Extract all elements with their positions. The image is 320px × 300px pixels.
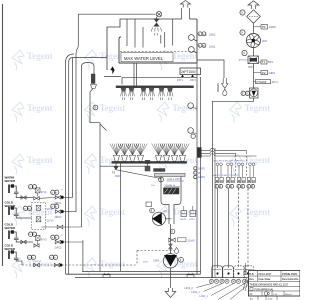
svg-text:Tegent: Tegent xyxy=(100,259,126,269)
indicator circled cold2 xyxy=(28,232,32,236)
sensor P3 xyxy=(254,26,262,28)
svg-text:2xPT1000: 2xPT1000 xyxy=(181,70,196,74)
tank internal divider 4 xyxy=(160,35,162,44)
svg-text:9YV3: 9YV3 xyxy=(41,239,48,242)
indicator circled p1 xyxy=(241,91,245,95)
terminal circle pairs xyxy=(216,163,219,166)
sensor 2xPT1000 xyxy=(180,68,201,75)
valve dashed line 1 xyxy=(34,263,40,267)
svg-text:PT1000: PT1000 xyxy=(257,80,267,84)
svg-text:Sheet 1: Sheet 1 xyxy=(285,293,293,296)
svg-text:TS: TS xyxy=(112,172,115,175)
wire tank overflow to drain xyxy=(197,60,224,78)
svg-text:29FC2: 29FC2 xyxy=(55,217,63,219)
svg-text:2x9L2: 2x9L2 xyxy=(209,34,216,37)
dashed group box solenoids xyxy=(32,203,46,230)
vent arrow up xyxy=(181,1,191,8)
nozzle side feed xyxy=(91,85,97,89)
indicator circled f2 xyxy=(240,30,245,35)
solenoid valve 9YV3 xyxy=(35,235,40,240)
overflow box small xyxy=(146,202,152,207)
tap 12SP1 xyxy=(194,175,197,178)
wire warm inlet xyxy=(19,197,33,199)
nozzle upper spray 4 xyxy=(149,88,154,92)
svg-text:Tegent: Tegent xyxy=(172,51,198,61)
svg-text:2M1: 2M1 xyxy=(262,39,268,43)
nozzle lower spray 2 xyxy=(122,155,128,161)
sensor DP1 box a xyxy=(181,211,187,217)
valve check FC2 xyxy=(55,210,61,214)
svg-text:S.: S. xyxy=(205,33,208,37)
tank internal divider 1 xyxy=(126,19,128,46)
tap 16SP1 xyxy=(194,167,197,170)
wire top spray supply xyxy=(78,13,156,15)
svg-text:1/2xYV2: 1/2xYV2 xyxy=(33,261,42,263)
wire sump to drain pump xyxy=(170,224,172,254)
exhaust arrow up xyxy=(248,1,259,9)
sump screen strip xyxy=(154,169,166,172)
svg-text:1/0T1: 1/0T1 xyxy=(177,80,184,82)
wire cold1 to riser xyxy=(64,211,76,213)
indicator circled S2 xyxy=(23,206,27,210)
tank internal divider 2 xyxy=(134,19,136,48)
title block bottom row xyxy=(257,296,259,300)
svg-text:1/2x8A1 8L: 1/2x8A1 8L xyxy=(165,184,177,187)
machine wall right xyxy=(196,63,198,274)
svg-text:Date /Date: Date /Date xyxy=(259,278,272,281)
svg-text:Description/De: Description/De xyxy=(282,278,299,281)
indicator circled 9 xyxy=(93,105,98,110)
valve 1/2xV3 xyxy=(169,238,175,242)
pipe loop standpipe xyxy=(82,63,95,228)
nozzle top spray xyxy=(153,19,159,27)
sensor T1 xyxy=(259,61,262,63)
svg-text:L1S1_1: L1S1_1 xyxy=(200,295,209,298)
wire diamond to fan xyxy=(253,24,255,35)
svg-text:2x8P1: 2x8P1 xyxy=(269,73,276,75)
svg-text:55F1: 55F1 xyxy=(268,62,274,64)
tank wall right xyxy=(196,19,198,63)
tank internal divider 5 xyxy=(164,32,166,48)
upper manifold feed pipe xyxy=(133,63,135,86)
contactor pairs xyxy=(215,177,218,182)
svg-text:2x0L1: 2x0L1 xyxy=(209,46,216,49)
wire to riser x68 xyxy=(64,197,73,199)
wire long vertical 215 xyxy=(214,148,216,278)
nozzle upper spray 5 xyxy=(159,88,164,92)
lower spray center block xyxy=(145,160,150,163)
svg-text:Tegent: Tegent xyxy=(172,207,198,217)
sensor tap right wall a xyxy=(188,103,194,109)
pump 1M1 impeller xyxy=(152,213,162,225)
sensor DP1 box b xyxy=(190,211,196,217)
max water level dashed line xyxy=(120,51,196,53)
indicator circled S3 xyxy=(51,235,55,239)
valve below 9YV3 xyxy=(21,240,26,243)
machine foot left xyxy=(103,273,110,278)
wire dashed service line xyxy=(22,264,137,266)
label MAX WATER LEVEL xyxy=(121,53,173,62)
sensor PT1000 xyxy=(254,81,256,83)
svg-text:Tegent: Tegent xyxy=(100,207,126,217)
svg-text:Tegent: Tegent xyxy=(27,103,53,113)
svg-text:Tegent: Tegent xyxy=(27,155,53,165)
wire pump to drain header xyxy=(213,98,254,278)
machine inner floor xyxy=(82,270,201,272)
pipe standpipe row4 xyxy=(82,240,84,271)
sump filter plate xyxy=(155,173,186,176)
wire dashed drop 2 xyxy=(246,152,248,178)
svg-text:23M1: 23M1 xyxy=(153,260,160,263)
valve dashed line 2 xyxy=(54,263,60,267)
sensor tap right wall b xyxy=(188,128,194,134)
wire pump 1M1 to standpipe xyxy=(166,218,172,220)
svg-text:L2S1_2: L2S1_2 xyxy=(185,287,194,290)
svg-text:2xFC3: 2xFC3 xyxy=(55,247,62,249)
svg-text:WATER: WATER xyxy=(5,204,16,208)
nozzle lower spray 7 xyxy=(172,155,178,161)
wire cold1 inlet xyxy=(19,217,32,219)
svg-text:PRIME DWN: PRIME DWN xyxy=(282,272,297,276)
svg-text:WATER: WATER xyxy=(5,226,16,230)
wire heater down xyxy=(253,64,255,89)
valve below 9YV1 xyxy=(34,197,40,201)
label L 2x0L1 xyxy=(198,43,202,47)
nozzle lower spray 3 xyxy=(130,155,136,161)
drain trap bulb xyxy=(223,89,227,95)
nozzle TS sump spray xyxy=(114,167,119,171)
switch level flap xyxy=(100,124,107,131)
svg-text:Tegent: Tegent xyxy=(245,155,271,165)
tank bottom xyxy=(119,62,197,64)
level sensor S xyxy=(188,35,194,41)
fan blower xyxy=(246,33,260,47)
lower spray manifold bar xyxy=(112,161,187,163)
sensor P2 xyxy=(254,72,262,74)
connector block 4 xyxy=(244,266,254,278)
pump 23M1 impeller xyxy=(163,254,177,268)
wire fan to heater xyxy=(253,48,255,56)
svg-text:1/2xV3: 1/2xV3 xyxy=(188,240,196,242)
svg-text:P3: P3 xyxy=(262,25,266,29)
drain standpipe xyxy=(169,208,174,224)
connector block 3 xyxy=(234,266,244,278)
machine foot right xyxy=(187,273,194,278)
svg-text:1 0A1 1 1/2T3: 1 0A1 1 1/2T3 xyxy=(167,178,182,181)
nozzle upper spray 1 xyxy=(121,88,126,92)
tank internal divider 6 xyxy=(172,19,174,46)
svg-text:THESE DRAWINGS ARE (C) 2017: THESE DRAWINGS ARE (C) 2017 xyxy=(250,283,289,286)
pipe heated section hatched xyxy=(91,74,95,84)
faucet cold water 1 xyxy=(8,207,10,216)
svg-text:WATER: WATER xyxy=(5,179,16,183)
pipe riser row1 xyxy=(72,58,74,198)
svg-text:21YV1: 21YV1 xyxy=(47,220,55,223)
machine casing bottom xyxy=(66,273,201,275)
pipe lower manifold feed xyxy=(120,163,122,271)
sump tub walls xyxy=(161,177,181,209)
faucet warm water xyxy=(8,185,10,194)
svg-text:B.B: B.B xyxy=(249,272,253,276)
indicator circled 6 xyxy=(170,229,175,234)
svg-text:10A1 1T 3 10A1 1T 3 10A1 1T: 10A1 1T 3 10A1 1T 3 10A1 1T xyxy=(213,174,241,177)
upper spray manifold bar xyxy=(116,86,194,88)
svg-text:2xBP2: 2xBP2 xyxy=(269,27,276,29)
svg-text:WATER: WATER xyxy=(5,247,16,251)
nozzle lower spray 5 xyxy=(156,155,162,161)
svg-text:1M1: 1M1 xyxy=(163,210,168,213)
nozzle upper spray 2 xyxy=(129,88,134,92)
overflow platform xyxy=(104,76,121,78)
wire diagonal sump feed xyxy=(115,170,162,179)
svg-text:DRAIN: DRAIN xyxy=(216,83,220,92)
indicator circled warm xyxy=(28,185,32,189)
sump inlet box hatched xyxy=(145,166,150,171)
svg-text:16SP1: 16SP1 xyxy=(198,169,206,171)
wire dashed drop 1 xyxy=(235,155,237,178)
valve inlet warm xyxy=(21,196,26,199)
terminal block on wall xyxy=(197,148,201,158)
solenoid valve 21YV1 xyxy=(36,217,41,222)
watermark Tegent tiles xyxy=(12,50,270,278)
level sensor L xyxy=(188,47,194,53)
wire sensor lead 3 with hops xyxy=(201,154,256,156)
indicator circled 5 xyxy=(179,257,184,262)
drain outlet arrow xyxy=(165,288,176,298)
wire sump feed horizontal xyxy=(100,165,145,167)
pump condensate xyxy=(250,88,259,98)
nozzle lower spray 6 xyxy=(164,155,170,161)
svg-text:FOR APPROVAL: FOR APPROVAL xyxy=(255,288,275,291)
indicator circled f3 xyxy=(242,50,247,55)
svg-text:Rev.: Rev. xyxy=(249,278,254,281)
faucet cold water 3 xyxy=(8,251,10,260)
svg-text:4PC1 8PC2 4PC1 8PC2 4PC1 8C2: 4PC1 8PC2 4PC1 8PC2 4PC1 8C2 xyxy=(214,161,246,163)
indicator circled 8 xyxy=(159,177,164,182)
indicator circled pairs e-row xyxy=(215,184,219,188)
pump 1M1 housing xyxy=(152,212,165,225)
solenoid valve 9YV2 xyxy=(36,205,41,210)
svg-text:6DP1: 6DP1 xyxy=(190,219,196,221)
connector block 2 xyxy=(223,266,234,278)
wire row3 to riser xyxy=(42,226,82,228)
indicator circled d1 xyxy=(27,255,31,259)
svg-text:9YV1: 9YV1 xyxy=(41,191,48,194)
sensor bulb service end xyxy=(174,248,178,254)
heater element block xyxy=(164,188,180,194)
chamber ceiling xyxy=(122,76,197,78)
heater box HPA xyxy=(248,56,259,64)
tank internal divider 3 xyxy=(142,27,144,48)
border frame left rule xyxy=(2,4,4,266)
overflow arrow black xyxy=(111,67,115,74)
tap PL xyxy=(194,171,197,174)
nozzle lower spray 4 xyxy=(138,155,144,161)
faucet cold water 2 xyxy=(8,231,10,240)
svg-text:Tegent: Tegent xyxy=(245,103,271,113)
drain arrow down xyxy=(222,78,228,88)
valve check FC1 xyxy=(55,196,61,200)
svg-text:P2: P2 xyxy=(262,71,266,75)
svg-text:9SP2: 9SP2 xyxy=(115,176,121,178)
wire solenoid stub xyxy=(37,193,39,197)
valve check FC3 xyxy=(55,240,61,244)
svg-text:10xT1: 10xT1 xyxy=(272,82,279,84)
svg-text:MAX WATER LEVEL: MAX WATER LEVEL xyxy=(124,56,164,61)
terminal pairs below blocks xyxy=(209,279,213,283)
tank lid stepped cover xyxy=(107,19,182,70)
wire cold2 inlet xyxy=(19,241,33,243)
wire cold3 to dashed line xyxy=(19,261,22,265)
nozzle lower spray 1 xyxy=(114,155,120,161)
svg-text:Tegent: Tegent xyxy=(245,207,271,217)
svg-text:L2S1_1: L2S1_1 xyxy=(192,291,201,294)
svg-text:1SDP1: 1SDP1 xyxy=(180,219,188,221)
wire cold2 to riser xyxy=(64,241,83,243)
wire sensor lead 2 with hops xyxy=(201,151,235,155)
svg-text:Tegent: Tegent xyxy=(172,259,198,269)
valve drain check xyxy=(169,244,173,249)
indicator circled S1 xyxy=(51,190,55,194)
indicator circled d2 xyxy=(49,255,53,259)
connector block 1 xyxy=(212,266,223,278)
tank wall left xyxy=(119,37,121,63)
svg-text:Tegent: Tegent xyxy=(27,51,53,61)
sensor tap right wall c xyxy=(191,134,195,138)
wires to connector blocks xyxy=(217,189,219,269)
wire warm water riser to top spray xyxy=(76,14,78,212)
svg-text:23V1: 23V1 xyxy=(143,262,149,264)
valve row3 xyxy=(57,225,63,229)
title block side mark xyxy=(244,263,248,275)
wire drain outlet xyxy=(170,268,172,288)
vent stack xyxy=(181,8,183,19)
indicator circled 7 xyxy=(150,208,155,213)
valve 9YV4 top spray valve xyxy=(156,12,161,17)
machine casing outer wall xyxy=(69,58,107,275)
cable leader lines xyxy=(197,284,212,288)
svg-text:12SP1: 12SP1 xyxy=(198,177,206,179)
label S 2x9L2 xyxy=(198,32,202,36)
indicator circled f1 xyxy=(240,10,245,15)
title block table xyxy=(249,271,301,297)
wire sensor lead 1 with hops xyxy=(201,148,246,152)
nozzle upper spray 3 xyxy=(141,88,146,92)
svg-text:2/0T1: 2/0T1 xyxy=(190,80,197,82)
wire chamber left wall upper xyxy=(90,92,100,271)
filter diamond xyxy=(247,10,261,23)
nozzle upper spray 6 xyxy=(167,88,172,92)
wire warm to riser xyxy=(39,197,55,200)
svg-text:Tegent: Tegent xyxy=(100,103,126,113)
svg-text:4EYHL6JS: 4EYHL6JS xyxy=(239,60,250,62)
solenoid valve 9YV1 xyxy=(35,188,40,193)
svg-text:09.12.2017: 09.12.2017 xyxy=(259,272,273,276)
nozzle lower spray 8 xyxy=(180,155,186,161)
